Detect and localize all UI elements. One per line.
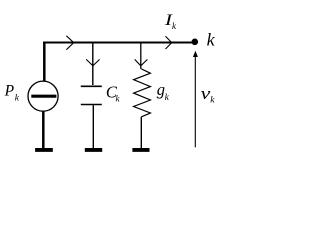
voltage arrow v_k line <box>194 56 196 148</box>
wire left vertical drop to current source <box>43 42 46 82</box>
current source P_k circle <box>28 81 58 111</box>
node k dot <box>192 39 199 46</box>
wire right branch vertical from top bus to resistor <box>140 43 142 69</box>
svg-text:k: k <box>207 30 216 50</box>
svg-text:k: k <box>172 21 177 31</box>
wire below current source to ground <box>42 112 45 149</box>
arrow current direction on top bus left segment <box>66 36 73 50</box>
svg-text:k: k <box>15 93 20 103</box>
ground bar left <box>35 148 53 152</box>
wire below resistor to ground <box>140 117 142 148</box>
ground bar right <box>132 148 149 152</box>
wire middle branch vertical from top bus to capacitor <box>92 43 94 86</box>
arrow current direction on top bus right segment near node k <box>166 36 172 49</box>
arrow current direction on middle branch <box>86 59 99 65</box>
ground bar middle <box>85 148 102 152</box>
resistor g_k zigzag <box>134 69 151 117</box>
capacitor C_k bottom plate <box>81 104 102 106</box>
svg-text:P: P <box>4 82 15 99</box>
voltage arrow v_k head <box>193 51 198 57</box>
wire below capacitor to ground <box>92 105 94 148</box>
svg-text:k: k <box>165 93 170 103</box>
arrow current direction on right branch <box>135 59 148 65</box>
svg-text:k: k <box>210 95 215 105</box>
svg-text:v: v <box>201 85 211 103</box>
wire top bus from left corner to node k <box>43 41 195 43</box>
capacitor C_k top plate <box>81 85 102 87</box>
current source internal bar <box>31 95 56 98</box>
svg-text:k: k <box>116 93 121 103</box>
